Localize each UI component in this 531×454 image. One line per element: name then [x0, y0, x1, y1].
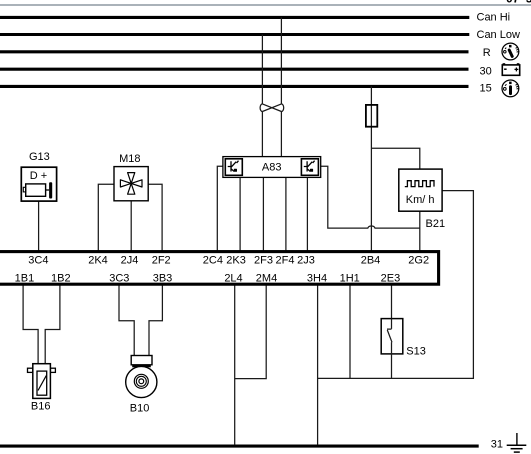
svg-text:Km/ h: Km/ h: [406, 194, 435, 206]
svg-text:07: 07: [506, 0, 520, 5]
svg-text:B10: B10: [130, 402, 150, 414]
svg-text:2F3: 2F3: [254, 254, 273, 266]
svg-text:2F2: 2F2: [152, 254, 171, 266]
svg-text:2J3: 2J3: [297, 254, 315, 266]
svg-text:3B3: 3B3: [153, 272, 173, 284]
svg-text:Can Hi: Can Hi: [477, 12, 511, 24]
svg-text:30: 30: [480, 65, 492, 77]
svg-text:R: R: [483, 47, 491, 59]
svg-text:G13: G13: [29, 151, 50, 163]
svg-text:3C3: 3C3: [109, 272, 129, 284]
svg-text:S13: S13: [406, 345, 426, 357]
svg-text:B21: B21: [426, 218, 446, 230]
svg-text:31: 31: [491, 439, 503, 451]
svg-text:2K3: 2K3: [226, 254, 246, 266]
svg-text:1H1: 1H1: [340, 272, 360, 284]
svg-text:2K4: 2K4: [88, 254, 108, 266]
svg-text:1B1: 1B1: [15, 272, 35, 284]
svg-text:15: 15: [480, 83, 492, 95]
svg-text:Can Low: Can Low: [477, 29, 520, 41]
svg-text:3H4: 3H4: [307, 272, 327, 284]
svg-text:M18: M18: [119, 153, 140, 165]
svg-text:2C4: 2C4: [203, 254, 223, 266]
svg-text:B16: B16: [31, 401, 51, 413]
svg-text:2F4: 2F4: [276, 254, 295, 266]
svg-text:2L4: 2L4: [224, 272, 242, 284]
svg-text:2G2: 2G2: [408, 254, 429, 266]
svg-text:2M4: 2M4: [256, 272, 277, 284]
svg-text:2B4: 2B4: [361, 254, 381, 266]
svg-text:A83: A83: [262, 161, 282, 173]
svg-text:3C4: 3C4: [28, 254, 48, 266]
svg-text:2E3: 2E3: [381, 272, 401, 284]
svg-text:5: 5: [526, 0, 531, 5]
svg-text:D +: D +: [30, 170, 47, 182]
svg-text:1B2: 1B2: [51, 272, 71, 284]
svg-text:2J4: 2J4: [121, 254, 139, 266]
